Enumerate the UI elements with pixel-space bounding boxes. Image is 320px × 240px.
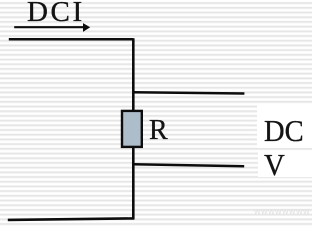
label DC (voltmeter, line 1) [264, 115, 304, 146]
label V (voltmeter, line 2) [264, 149, 285, 180]
wire: lower branch to DC voltmeter [133, 164, 244, 166]
wire: bottom horizontal return lead [8, 218, 134, 220]
wire: upper branch to DC voltmeter [133, 92, 244, 93]
faint watermark bottom right [254, 206, 310, 217]
label R (resistor designator) [149, 117, 168, 145]
current direction arrow head [83, 23, 90, 32]
resistor R body [122, 111, 142, 147]
white patch behind DC label [257, 105, 312, 148]
label DCI (DC current) [27, 0, 85, 27]
white patch behind V label [258, 151, 312, 177]
wire: top horizontal (left supply lead to corner node) [9, 38, 134, 41]
current direction arrow shaft (DC I) [14, 26, 83, 28]
wire: main vertical through resistor [132, 38, 135, 219]
